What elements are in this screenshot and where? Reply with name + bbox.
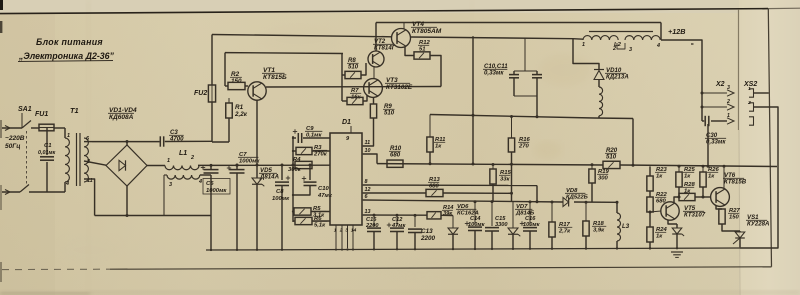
wire bottom rail	[206, 248, 740, 250]
svg-text:5,1к: 5,1к	[314, 222, 326, 228]
resistor R27	[716, 206, 722, 210]
svg-text:0,33мк: 0,33мк	[484, 70, 504, 77]
junction dots bottom rail	[210, 249, 212, 251]
svg-text:2: 2	[726, 99, 730, 105]
svg-text:4: 4	[656, 43, 660, 49]
resistor R5	[293, 211, 294, 213]
svg-text:L1: L1	[179, 150, 187, 157]
svg-text:1: 1	[727, 113, 730, 119]
resistor R23	[647, 176, 653, 191]
resistor R3	[293, 150, 296, 152]
svg-text:Д814А: Д814А	[259, 174, 279, 181]
svg-text:КД522Б: КД522Б	[566, 194, 588, 200]
svg-text:0,1мк: 0,1мк	[306, 132, 323, 138]
svg-text:4: 4	[198, 179, 202, 185]
svg-text:1: 1	[582, 42, 585, 48]
svg-text:300: 300	[598, 175, 609, 181]
svg-text:680: 680	[429, 183, 440, 189]
svg-text:1к: 1к	[656, 233, 663, 239]
svg-text:D1: D1	[342, 119, 351, 126]
svg-text:С8: С8	[276, 189, 284, 195]
resistor R15	[492, 165, 494, 169]
wire pin6/VD8 line	[363, 200, 563, 202]
svg-text:270: 270	[518, 143, 530, 149]
wire T1 pin6 to C3 line	[84, 141, 92, 143]
svg-text:КД608А: КД608А	[109, 114, 134, 121]
resistor R9	[373, 98, 375, 105]
svg-text:1к: 1к	[656, 173, 663, 179]
wire bridge bottom	[126, 186, 128, 216]
IC right rails	[363, 184, 537, 187]
svg-text:1: 1	[67, 133, 70, 139]
wire +12V to connector	[661, 40, 702, 121]
svg-text:FU1: FU1	[35, 111, 48, 118]
right page fold	[738, 9, 740, 130]
capacitor C13	[414, 215, 416, 227]
svg-text:50Гц: 50Гц	[5, 143, 21, 150]
svg-text:3,9к: 3,9к	[593, 227, 605, 233]
svg-text:1: 1	[167, 158, 170, 164]
svg-text:39к: 39к	[443, 211, 453, 217]
wire vertical x342	[341, 54, 343, 102]
svg-text:С6: С6	[206, 181, 214, 187]
wire rail A right part	[411, 37, 583, 39]
svg-text:Х2: Х2	[715, 81, 725, 88]
IC pin stubs right	[362, 145, 363, 147]
resistor R17	[551, 202, 553, 222]
svg-text:1к: 1к	[684, 173, 691, 179]
svg-text:510: 510	[606, 154, 617, 161]
svg-text:510: 510	[384, 110, 395, 117]
wire VT2 collector	[375, 37, 377, 51]
left edge marks	[0, 0, 3, 10]
wire rail B	[225, 52, 343, 55]
wire VT4 top loop	[376, 22, 661, 24]
svg-text:4: 4	[65, 181, 69, 187]
svg-text:С13: С13	[421, 228, 433, 235]
connector pins	[702, 92, 727, 94]
capacitor C10	[309, 165, 311, 180]
svg-text:0,33мк: 0,33мк	[706, 139, 726, 146]
svg-text:150: 150	[231, 78, 242, 85]
svg-text:C1: C1	[44, 143, 52, 149]
wire L1 pin4 down	[200, 174, 211, 176]
wire pin13 rail	[363, 214, 427, 216]
svg-text:100мк: 100мк	[523, 222, 541, 228]
svg-text:КД213А: КД213А	[606, 74, 629, 81]
wire C3 line	[92, 141, 160, 143]
wire long vertical x473	[472, 36, 474, 164]
inductor winding under VD10	[599, 87, 603, 116]
wire mid rail y116	[430, 115, 633, 119]
svg-text:КТ805АМ: КТ805АМ	[412, 28, 442, 35]
svg-text:R4: R4	[293, 157, 301, 163]
wire top rail A left part	[212, 35, 392, 37]
resistor R26	[702, 166, 704, 172]
wire VT4 emitter	[405, 47, 414, 56]
resistor R24	[647, 227, 653, 242]
svg-text:300к: 300к	[288, 167, 302, 173]
diode bridge VD1-VD4	[106, 145, 147, 186]
capacitor C9	[293, 137, 296, 139]
wire main output rail y164	[363, 154, 377, 164]
svg-text:0,01мк: 0,01мк	[38, 150, 56, 156]
input terminal bottom	[2, 191, 20, 193]
top page rule line	[0, 9, 768, 14]
svg-text:2,7к: 2,7к	[558, 228, 571, 234]
svg-text:L3: L3	[622, 223, 630, 230]
svg-text:2,2к: 2,2к	[234, 111, 248, 118]
svg-text:КУ228А: КУ228А	[747, 221, 769, 228]
wire T1 pin11 down	[84, 179, 95, 216]
wire bottom loop	[95, 215, 211, 217]
input terminal top	[2, 127, 22, 129]
capacitor C7	[236, 165, 238, 170]
wire main rail after L1	[198, 164, 330, 166]
svg-text:510: 510	[348, 64, 359, 71]
svg-text:КТ815Б: КТ815Б	[263, 74, 287, 81]
svg-text:1к: 1к	[435, 143, 442, 149]
capacitor C30	[711, 120, 727, 122]
resistor R22	[647, 197, 653, 212]
resistor R1	[226, 103, 233, 118]
svg-text:Т1: Т1	[70, 106, 79, 115]
svg-text:4700: 4700	[169, 136, 184, 143]
resistor R18	[585, 202, 587, 221]
svg-text:100мк: 100мк	[272, 196, 290, 202]
svg-text:3: 3	[345, 228, 348, 234]
svg-text:47мк: 47мк	[391, 223, 406, 229]
svg-text:КТ3102Е: КТ3102Е	[386, 84, 413, 91]
figure frame bottom	[2, 268, 110, 270]
wire block verticals	[649, 166, 651, 176]
wire C30 down to block	[707, 124, 709, 167]
figure frame right edge	[768, 9, 771, 267]
right page margin	[739, 0, 800, 295]
svg-text:2: 2	[190, 155, 194, 161]
svg-text:3300: 3300	[495, 222, 508, 228]
svg-text:1: 1	[748, 86, 751, 92]
svg-text:1: 1	[334, 228, 337, 234]
IC pin stubs bottom	[335, 225, 337, 248]
svg-text:L2: L2	[614, 42, 622, 48]
resistor R4	[295, 161, 312, 168]
svg-text:3: 3	[169, 182, 172, 188]
svg-text:С10: С10	[318, 186, 330, 192]
svg-text:КТ3107: КТ3107	[684, 212, 706, 219]
svg-text:2200: 2200	[365, 223, 379, 229]
svg-text:680: 680	[390, 152, 401, 159]
zener VD9 and ground	[668, 220, 677, 225]
svg-text:Блок питания: Блок питания	[36, 37, 103, 47]
svg-text:2200: 2200	[420, 235, 436, 242]
capacitor C3	[159, 136, 161, 146]
inductor L2	[584, 40, 586, 44]
wire T1 pin8 to bridge	[84, 161, 106, 165]
capacitor C16	[373, 215, 375, 226]
junction dots misc	[292, 137, 294, 139]
resistor R19	[591, 165, 593, 169]
capacitor C15	[491, 202, 493, 226]
resistor R11	[429, 115, 431, 138]
bottom edge shadow	[0, 290, 800, 295]
svg-text:+12В: +12В	[668, 27, 685, 36]
svg-text:FU2: FU2	[194, 90, 207, 97]
wire from coil to rail	[632, 119, 634, 166]
wire pin8 bend	[536, 186, 538, 202]
svg-text:100мк: 100мк	[468, 222, 486, 228]
svg-text:1000мк: 1000мк	[206, 188, 227, 194]
svg-text:SA1: SA1	[18, 106, 32, 113]
svg-text:270к: 270к	[313, 151, 328, 157]
svg-text:1к: 1к	[708, 173, 715, 179]
capacitor C12	[396, 215, 398, 226]
wire mid vertical	[292, 136, 294, 222]
svg-text:3: 3	[629, 47, 632, 53]
wire L1 pin3 stub	[164, 174, 167, 176]
capacitor C1	[46, 128, 48, 155]
svg-text:14: 14	[351, 228, 357, 234]
svg-text:150: 150	[729, 214, 740, 220]
svg-text:3: 3	[727, 85, 730, 91]
svg-text:2: 2	[747, 100, 751, 106]
capacitor C6	[210, 165, 212, 169]
resistor R6	[293, 220, 295, 222]
svg-text:КТ815В: КТ815В	[724, 179, 747, 186]
wire bridge top stub	[126, 142, 128, 146]
svg-text:~220В: ~220В	[5, 135, 25, 142]
wire VT1 collector rail	[266, 86, 441, 89]
resistor R16	[511, 117, 513, 139]
wire to T1 primary	[64, 128, 66, 138]
capacitor C8	[281, 165, 283, 180]
wire XS2 out 1	[754, 92, 769, 94]
choke L3	[616, 202, 618, 213]
resistor R14	[427, 212, 441, 219]
svg-text:2: 2	[339, 228, 343, 234]
top page strip	[0, 0, 800, 13]
svg-text:„Электроника Д2-36”: „Электроника Д2-36”	[18, 51, 115, 61]
svg-text:33к: 33к	[500, 176, 511, 182]
wire XS2 out 2	[740, 107, 778, 248]
capacitor C16b	[529, 202, 531, 226]
capacitor C14	[474, 202, 476, 225]
resistor R25	[678, 166, 680, 172]
